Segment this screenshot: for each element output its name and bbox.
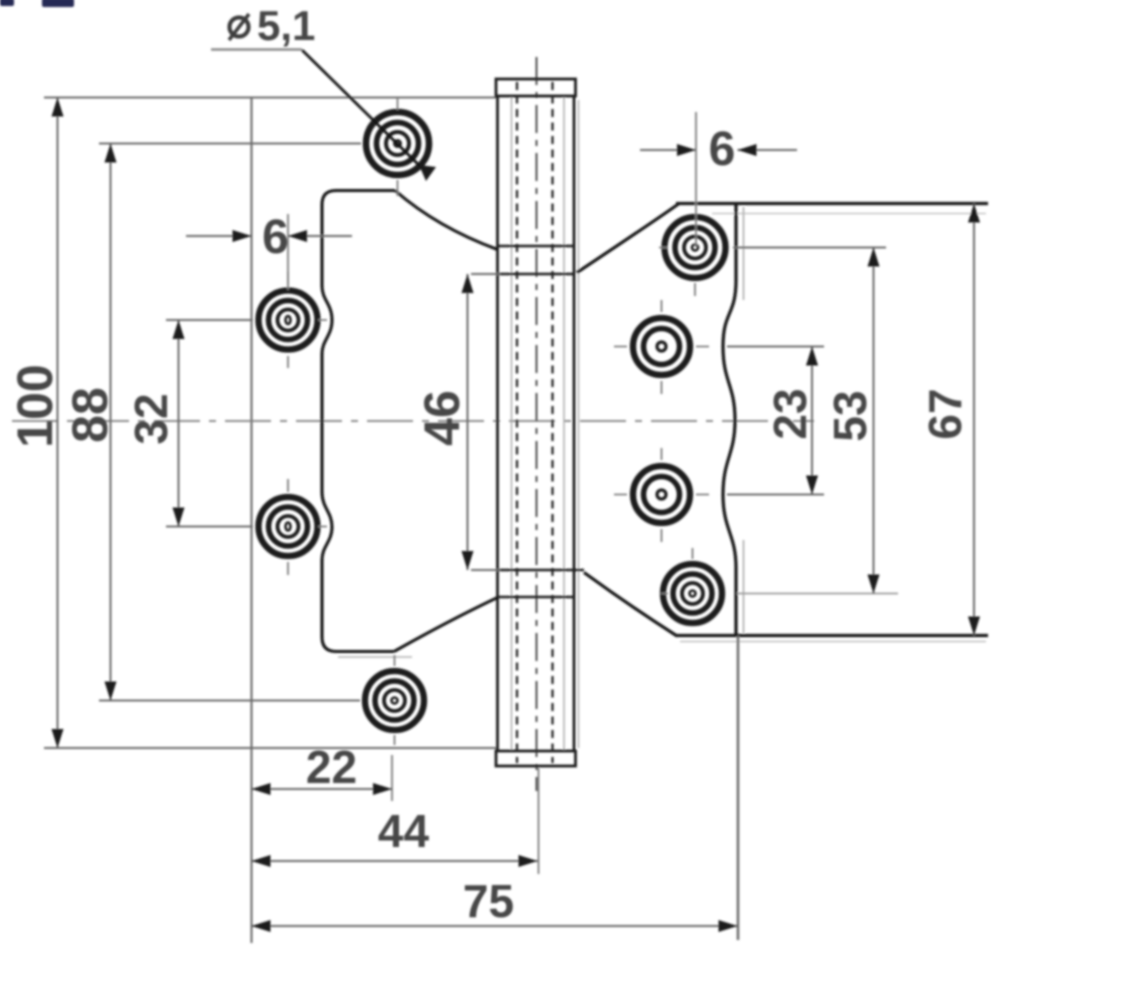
left leaf plate (thin gray rectangle) top edge + 100-dim extension [44,97,497,99]
dia 5.1 label [211,2,315,50]
knuckle joint line bottom outer [498,596,575,599]
barrel centerline (vertical dash-dot) [536,57,538,791]
screw hole H2 left upper-middle [259,291,318,350]
svg-text:32: 32 [125,393,177,444]
dim 23 extensions [727,347,824,495]
knuckle joint line top outer [498,245,575,248]
right leaf right wavy edge [723,204,736,636]
svg-text:75: 75 [463,875,514,927]
dim 88 line [110,144,112,701]
dim 6 left: line and tails [186,235,352,237]
dim 23 line [811,347,813,495]
svg-text:100: 100 [7,364,63,447]
dim 22 extension (hole centerline down) [391,755,393,801]
knuckle joint line top inner [498,273,575,276]
screw hole H4 bottom-left [365,671,424,730]
H2 crosshair ticks [240,272,327,368]
right leaf bottom-left concave curve [584,573,677,637]
barrel right edge [573,96,576,750]
dia 5.1 leader line [302,50,428,174]
H6 crosshair ticks [614,300,709,394]
dim 67 line [973,204,975,636]
dim 100 arrows [52,98,64,117]
right leaf bottom edge ghost [680,641,986,643]
svg-text:22: 22 [306,741,357,793]
right leaf top-left concave curve [577,204,679,273]
dim 67 arrows [968,204,980,223]
dim 44 extension (pin centerline down) [538,768,540,874]
dim 32 line [178,320,180,527]
svg-text:44: 44 [378,805,430,857]
screw hole H3 left lower-middle [259,497,318,556]
screw hole H8 right-bottom [663,564,722,623]
dim 46 line [467,274,469,570]
dim 6 left extension (hole centerline up) [287,214,289,290]
dim 32 extension top [166,319,252,321]
dim 88 arrows [105,144,117,163]
dim 53 arrows [868,248,880,267]
dim 44 line [252,860,538,862]
dim 6 right extension (hole centerline up) [695,112,697,247]
dim 100 line [57,98,59,749]
pin hidden line right (dashed) [551,82,553,763]
dia 5.1 leader arrowhead [419,165,436,181]
dim 53 line [873,248,875,594]
right leaf top edge ghost [712,213,986,215]
window cutout outline in left leaf (butterfly) [322,191,395,652]
pin top cap [496,79,576,96]
dim 44 arrows [252,855,271,867]
left leaf plate left edge + extension to bottom dims [250,98,252,944]
svg-text:6: 6 [262,211,289,264]
svg-text:53: 53 [824,390,876,441]
H4 crosshair ticks [394,655,396,745]
right leaf bottom edge + extension to 67 dim [676,634,988,637]
window top concave curve to barrel [395,191,498,250]
dim 88 extension top [99,143,361,145]
svg-text:23: 23 [764,388,816,439]
pin bottom cap [496,751,576,766]
dim 46 arrows [462,274,474,293]
dim 75 line [252,925,738,927]
H7 crosshair ticks [614,448,709,542]
dim 22 line [252,788,393,790]
horizontal centerline [12,420,814,422]
screw hole H7 right lower-middle [633,466,690,523]
svg-text:88: 88 [62,387,118,443]
H1 crosshair ticks [397,98,399,196]
svg-text:67: 67 [919,388,971,439]
barrel inner wall faint lines [512,96,565,750]
barrel left edge [496,96,499,750]
dim 53 extensions [733,247,886,249]
right leaf top edge + extension to 67 dim [676,202,988,205]
H5 crosshair ticks [659,248,695,297]
dim 46 short extensions [471,274,500,570]
knuckle joint line bottom inner [498,569,585,572]
screw hole H1 top-left with countersink [366,112,429,175]
window bottom concave curve to barrel [394,598,498,652]
right leaf right edge ghost [743,207,745,633]
dim 23 arrows [806,347,818,366]
dim 22 arrows [252,783,271,795]
H3 crosshair ticks [240,479,327,575]
barrel right edge ghost [578,100,580,748]
pin hidden line left (dashed) [516,82,518,763]
window bottom edge ghost [338,656,412,658]
dim 6 left arrows (outside pointing in) [233,230,252,242]
dim 75 arrows [252,920,271,932]
H8 crosshair ticks [661,548,693,594]
svg-text:6: 6 [709,123,736,176]
dim 6 right arrows (outside pointing in) [677,144,696,156]
left leaf plate bottom edge + extension [44,747,497,749]
logo remnant top-left [0,0,14,6]
dim 6 right: line and tails [640,149,797,151]
svg-text:5,1: 5,1 [257,2,315,49]
right leaf right edge extension down to 75 dim [737,636,740,940]
screw hole H6 right upper-middle [633,318,690,375]
dim 32 extension bottom [166,526,252,528]
dim 88 extension bottom [99,700,360,702]
screw hole H5 right-top [665,217,726,278]
dim 32 arrows [173,320,185,339]
svg-text:46: 46 [414,390,470,446]
